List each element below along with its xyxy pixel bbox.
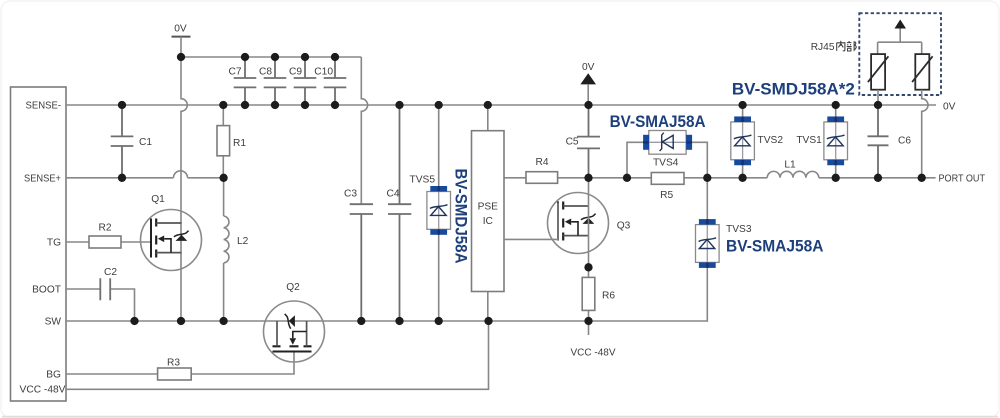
junction: C3 bottom on SW [357,317,365,325]
svg-text:R1: R1 [233,138,246,149]
svg-text:C8: C8 [259,66,272,77]
svg-text:0V: 0V [582,62,595,73]
svg-text:C5: C5 [566,136,579,147]
wire varistor right down with hop to PORT OUT [922,90,928,178]
TVS4 branch wires [627,142,707,178]
svg-text:TVS4: TVS4 [653,157,679,168]
svg-text:C3: C3 [344,189,357,200]
svg-text:PSE: PSE [478,202,499,213]
RJ45 dashed box [859,13,941,95]
junction: 0V terminal / top rail [177,53,185,61]
TVS3 diode [706,178,708,220]
wire BOOT line to C2 [66,288,100,290]
junction: R1 bottom / L2 top [219,174,227,182]
varistor right [915,54,929,90]
svg-text:SENSE-: SENSE- [26,101,62,112]
svg-text:Q1: Q1 [151,194,165,205]
wire BG line through R3 to Q2 gate [66,352,294,375]
junction: C10 bottom [331,101,339,109]
varistor left [871,54,885,90]
junction: C6 top / RJ45 left leg [874,101,882,109]
junction: TVS5 top [435,101,443,109]
main output line y177.8: PSE to PORT OUT [504,177,936,179]
svg-text:C6: C6 [898,136,911,147]
junction: C1 bottom on SENSE+ [118,174,126,182]
svg-text:BV-SMAJ58A: BV-SMAJ58A [726,237,824,255]
junction: C6 bottom [874,174,882,182]
resistor R1 [222,105,224,178]
wire top rail y57 [181,56,361,58]
svg-text:0V: 0V [174,24,187,35]
capacitor C3 [350,204,373,321]
TVS4 diode [643,131,692,155]
TVS5 diode [438,105,440,321]
junction: C8 top [271,53,279,61]
resistor R5 [651,173,684,185]
svg-text:BV-SMDJ58A*2: BV-SMDJ58A*2 [732,80,855,98]
junction: TVS4 branch left [623,174,631,182]
VCC -48V terminal [588,321,590,335]
capacitor C6 [868,105,889,178]
capacitor C10 [324,57,347,105]
svg-text:PORT OUT: PORT OUT [939,174,986,185]
junction: TVS4 branch right / TVS3 [703,174,711,182]
svg-text:BV-SMDJ58A: BV-SMDJ58A [451,169,469,264]
capacitor C8 [264,57,287,105]
svg-text:TG: TG [47,238,61,249]
svg-text:BV-SMAJ58A: BV-SMAJ58A [610,113,706,131]
wire 0V terminal down to top rail [180,37,182,57]
wire top-rail corner down + hop over 0V rail + down to C3 [361,57,367,204]
PSE IC [487,105,489,321]
junction: 0V vertical on SW [177,317,185,325]
junction: PSE IC bottom / VCC riser [484,317,492,325]
svg-text:C2: C2 [104,267,117,278]
svg-text:C7: C7 [228,66,241,77]
junction: RJ45 right leg on PORT OUT [918,174,926,182]
junction: R6 bottom on SW [584,317,592,325]
svg-text:TVS1: TVS1 [796,135,822,146]
capacitor C9 [294,57,317,105]
svg-text:L2: L2 [237,236,249,247]
wire Q3 gate from PSE [504,203,558,240]
inductor L2 [224,178,229,321]
junction: C10 top [331,53,339,61]
junction: C7 top [241,53,249,61]
capacitor C5 [577,105,600,178]
resistor R3 [158,368,192,380]
resistor R4 [526,172,558,184]
svg-text:C1: C1 [139,137,152,148]
wire TG line [66,241,151,243]
wire Q3 drain/source vertical [588,178,590,267]
svg-text:RJ45: RJ45 [811,42,835,53]
junction: Q3 drain / C5 / R4 [584,174,592,182]
svg-text:0V: 0V [943,102,956,113]
wire varistor left down to rail [877,90,879,105]
wire 0V rail y105 (SENSE- net) [66,104,936,106]
svg-text:TVS2: TVS2 [758,135,784,146]
svg-text:C9: C9 [289,66,302,77]
TVS2 diode [742,105,744,178]
wire SENSE+ segment with hop over 0V vertical [66,171,224,178]
svg-text:SW: SW [45,317,62,328]
junction: C5 bottom / 0V [584,101,592,109]
junction: C2 drop on SW [130,317,138,325]
resistor R2 [89,236,121,248]
svg-text:R3: R3 [167,357,180,368]
junction: TVS1 bottom [832,174,840,182]
junction: C1 top on 0V rail [118,101,126,109]
capacitor C4 [388,105,411,321]
svg-text:L1: L1 [784,159,796,170]
resistor R6 [588,267,590,321]
TVS1 diode [835,105,837,178]
wire VCC -48V line [66,321,489,389]
capacitor C7 [234,57,257,105]
junction: PSE IC top [484,101,492,109]
svg-text:Q2: Q2 [286,282,300,293]
junction: C9 bottom [301,101,309,109]
svg-text:R2: R2 [98,223,111,234]
wire 0V vertical: rail junction down, hop over SENSE- rail, through Q1 to SW [181,57,187,321]
svg-text:VCC -48V: VCC -48V [571,348,616,359]
junction: TVS2 top [738,101,746,109]
svg-text:R5: R5 [660,190,673,201]
svg-text:TVS5: TVS5 [410,175,436,186]
svg-text:C4: C4 [386,189,399,200]
svg-text:IC: IC [483,216,493,227]
junction: TVS5 bottom on SW [435,317,443,325]
junction: L2 bottom on SW [219,317,227,325]
junction: C9 top [301,53,309,61]
svg-text:R6: R6 [602,291,615,302]
inductor L1 [767,171,819,177]
svg-text:C10: C10 [314,66,333,77]
controller box [11,87,67,401]
svg-text:Q3: Q3 [617,220,631,231]
junction: R1 top on 0V rail [219,101,227,109]
RJ45 arrow [895,20,907,29]
wire C2 right to SW [110,289,134,321]
svg-text:TVS3: TVS3 [726,224,752,235]
svg-text:SENSE+: SENSE+ [24,173,61,184]
junction: C4 bottom on SW [395,317,403,325]
junction: Q3 source / R6 top [584,263,592,271]
capacitor C1 [111,105,134,178]
capacitor C2 [100,278,110,300]
svg-text:BOOT: BOOT [32,285,61,296]
wire SW line [66,268,707,321]
svg-text:BG: BG [46,370,61,381]
junction: TVS2 bottom [738,174,746,182]
svg-text:R4: R4 [535,157,548,168]
junction: C4 top [395,101,403,109]
junction: C8 bottom [271,101,279,109]
junction: TVS1 top [832,101,840,109]
svg-text:VCC -48V: VCC -48V [20,384,66,395]
junction: C7 bottom [241,101,249,109]
